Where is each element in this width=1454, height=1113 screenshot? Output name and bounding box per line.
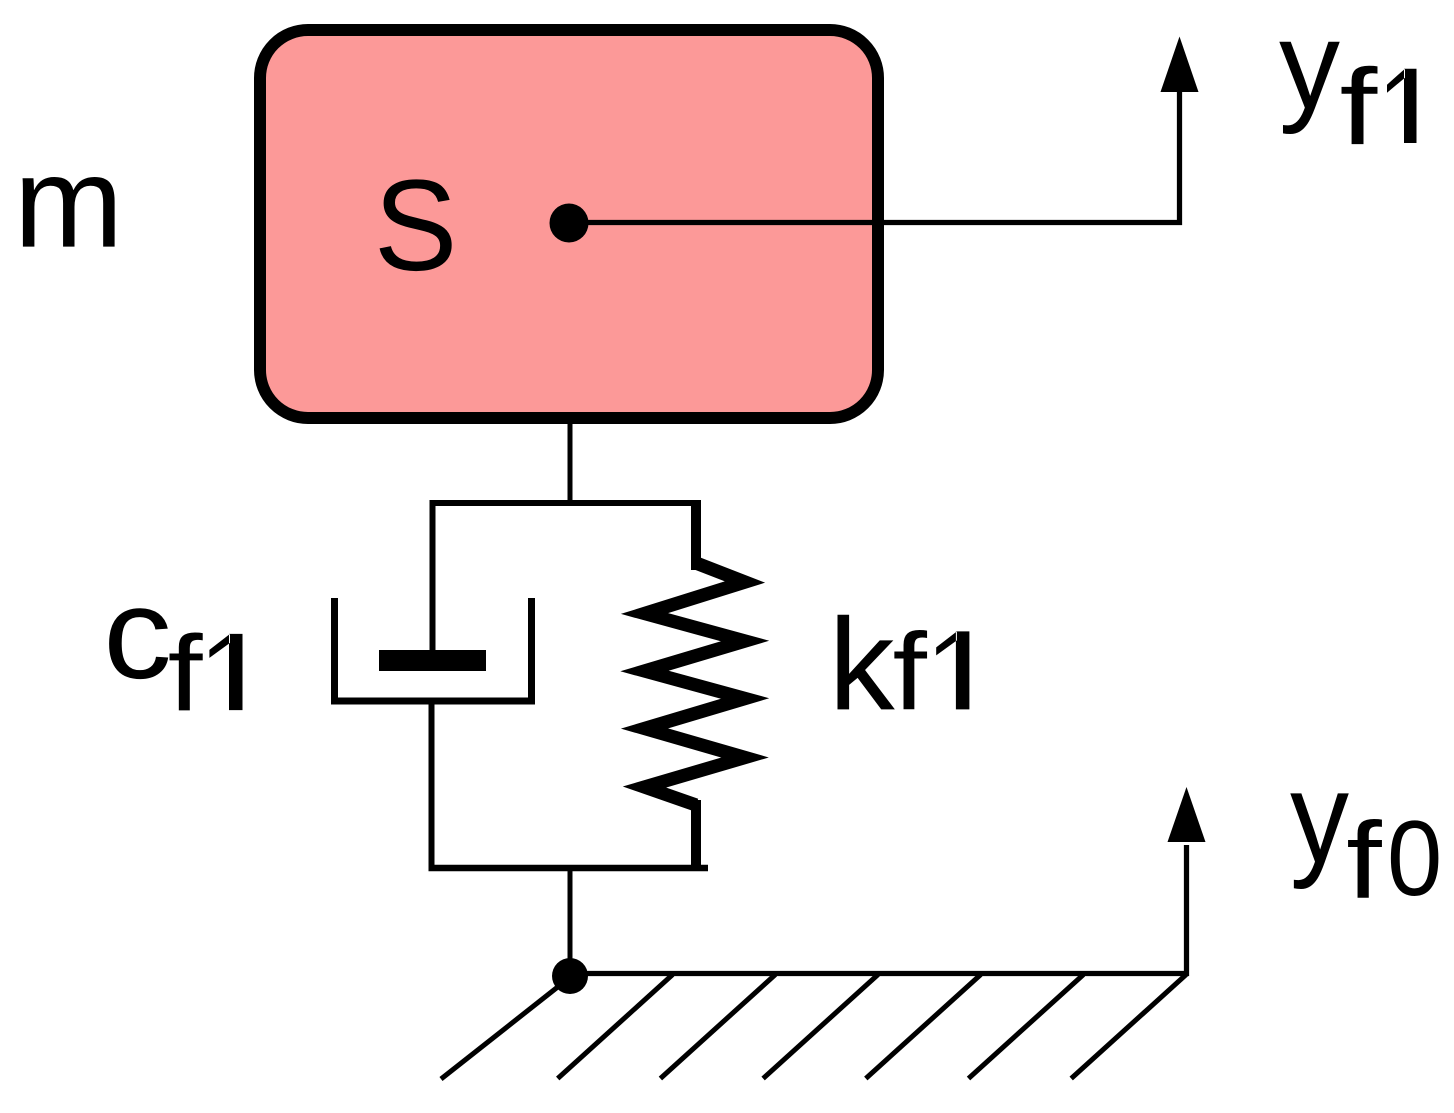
svg-text:y: y	[1290, 746, 1349, 891]
wire branch bottom bar	[429, 865, 709, 872]
arrow yf0 head	[1168, 787, 1206, 842]
svg-text:f: f	[168, 613, 203, 734]
svg-text:m: m	[14, 130, 123, 275]
wire damper to bottom bar	[429, 701, 435, 871]
ground hatching	[441, 975, 1186, 1080]
damper cf1 piston rod	[430, 500, 436, 652]
svg-text:y: y	[1279, 0, 1340, 135]
wire branch top bar	[430, 500, 701, 506]
wire bottom bar to ground node	[568, 865, 573, 976]
wire measurement line and yf1 arrow shaft	[569, 90, 1180, 223]
svg-text:f: f	[1340, 47, 1379, 168]
center-of-mass dot	[550, 204, 589, 243]
wire mass to damper-spring branch	[568, 415, 573, 506]
svg-text:f: f	[1346, 800, 1383, 921]
damper cf1 piston plate	[379, 650, 486, 671]
mass m (rounded block S)	[260, 30, 878, 418]
svg-text:k: k	[829, 591, 895, 737]
ground line and yf0 arrow shaft	[570, 845, 1187, 974]
label kf1 - 1	[936, 631, 969, 709]
label yf1 - 1	[1387, 69, 1417, 143]
arrow yf1 head	[1161, 37, 1199, 93]
svg-text:S: S	[374, 153, 458, 297]
damper cf1 cylinder cup	[335, 598, 532, 701]
svg-text:0: 0	[1387, 799, 1442, 918]
spring kf1	[645, 500, 746, 871]
svg-text:f: f	[893, 611, 928, 733]
ground node junction dot	[552, 958, 588, 994]
svg-text:c: c	[103, 561, 172, 706]
label cf1 - 1	[209, 634, 242, 710]
